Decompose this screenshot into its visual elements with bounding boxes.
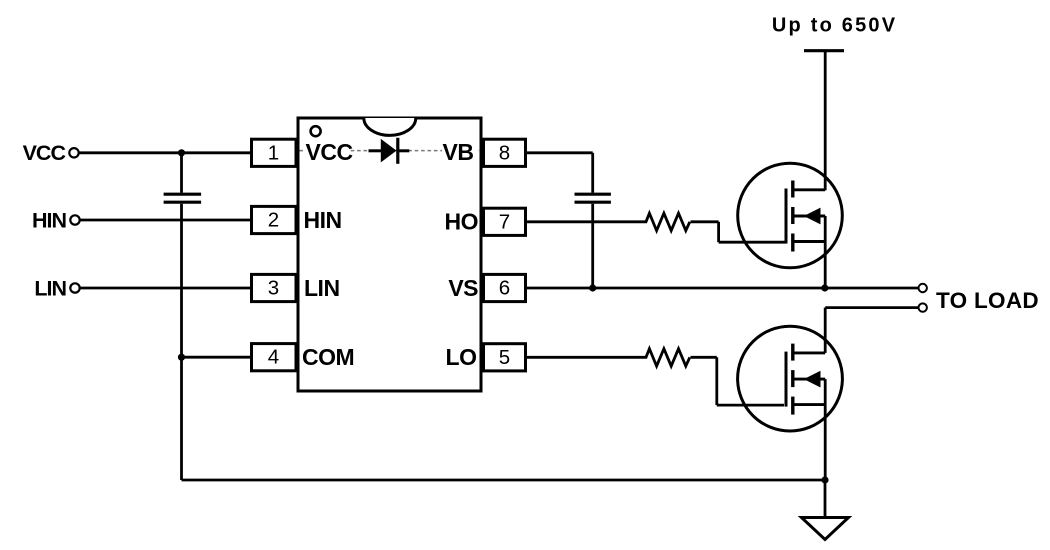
svg-text:LIN: LIN [304,275,340,301]
svg-text:4: 4 [268,346,279,369]
svg-text:1: 1 [268,141,279,164]
svg-text:7: 7 [499,210,510,233]
svg-text:VB: VB [443,139,474,165]
svg-text:COM: COM [302,344,354,370]
svg-text:2: 2 [268,209,279,232]
svg-text:TO LOAD: TO LOAD [936,288,1039,313]
svg-text:VCC: VCC [23,141,66,165]
svg-text:HIN: HIN [32,208,67,232]
svg-text:HIN: HIN [304,207,342,233]
svg-text:HO: HO [445,209,479,235]
svg-text:3: 3 [268,277,279,300]
svg-text:6: 6 [499,277,510,300]
svg-text:5: 5 [499,346,510,369]
svg-text:Up to 650V: Up to 650V [772,14,897,36]
svg-text:LO: LO [446,344,477,370]
svg-text:LIN: LIN [34,276,66,300]
svg-text:VS: VS [448,275,478,301]
svg-text:VCC: VCC [306,139,353,165]
svg-text:8: 8 [499,141,510,164]
